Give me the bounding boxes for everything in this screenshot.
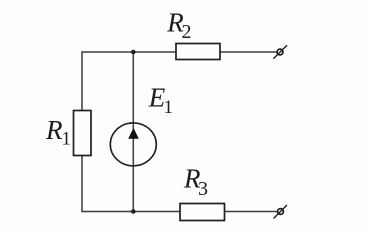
junction node top — [131, 50, 136, 55]
wire bottom horizontal right (R3 to terminal) — [225, 211, 278, 213]
terminal top (open) — [277, 49, 283, 55]
svg-text:R: R — [45, 115, 63, 145]
wire bottom horizontal left (to R3) — [82, 211, 180, 213]
wire top horizontal left (node junction to R2) — [82, 51, 176, 53]
svg-text:2: 2 — [182, 21, 192, 43]
current source E1 arrow — [128, 128, 139, 139]
terminal bottom (open) — [278, 209, 284, 215]
svg-text:3: 3 — [198, 178, 208, 200]
resistor R1 — [74, 111, 92, 156]
resistor R3 — [180, 204, 225, 221]
svg-text:1: 1 — [164, 97, 174, 118]
wire top horizontal right (R2 to terminal) — [220, 51, 277, 53]
junction node bottom — [131, 209, 136, 214]
current source E1 circle — [110, 123, 156, 166]
resistor R2 — [176, 44, 220, 60]
svg-text:1: 1 — [62, 128, 72, 149]
wire center vertical (through E1) — [132, 52, 134, 212]
wire left vertical (through R1) — [81, 51, 83, 212]
